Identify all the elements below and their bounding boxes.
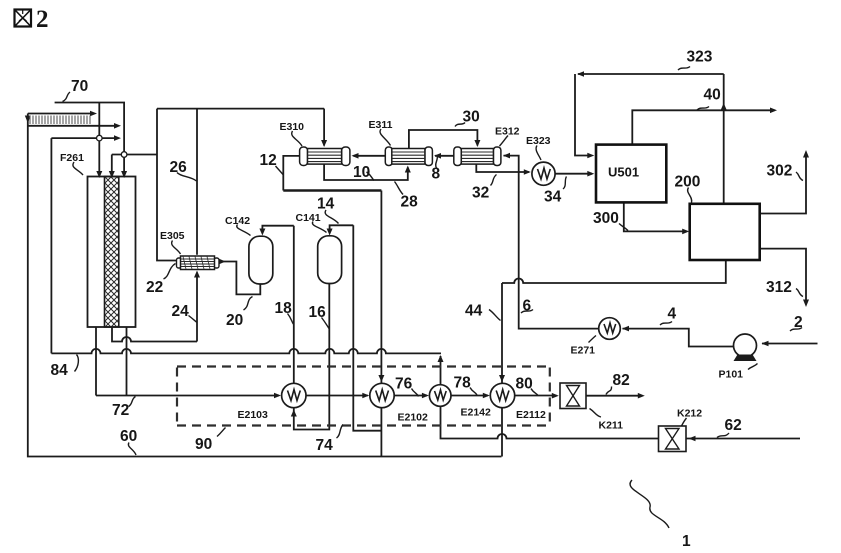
svg-text:E305: E305 [160, 230, 185, 242]
svg-text:302: 302 [767, 163, 793, 180]
svg-text:K212: K212 [677, 408, 702, 420]
svg-text:E2142: E2142 [461, 407, 492, 419]
svg-text:E323: E323 [526, 135, 551, 147]
svg-text:E271: E271 [571, 345, 596, 357]
svg-text:82: 82 [613, 372, 630, 389]
svg-text:22: 22 [146, 279, 163, 296]
svg-text:E311: E311 [369, 119, 393, 131]
svg-text:26: 26 [170, 159, 188, 176]
svg-text:24: 24 [172, 303, 190, 320]
svg-text:1: 1 [682, 533, 691, 550]
svg-text:F261: F261 [60, 152, 84, 164]
svg-text:E2102: E2102 [398, 412, 429, 424]
svg-text:4: 4 [668, 306, 677, 323]
svg-text:16: 16 [309, 304, 327, 321]
svg-text:72: 72 [112, 402, 129, 419]
svg-text:8: 8 [432, 166, 441, 183]
svg-text:74: 74 [316, 437, 334, 454]
svg-text:E2103: E2103 [238, 409, 269, 421]
svg-text:20: 20 [226, 312, 243, 329]
svg-text:28: 28 [401, 194, 419, 211]
svg-text:80: 80 [516, 376, 533, 393]
svg-text:40: 40 [704, 87, 721, 104]
svg-text:34: 34 [544, 189, 562, 206]
svg-text:C141: C141 [296, 212, 321, 224]
svg-text:C142: C142 [225, 215, 250, 227]
svg-text:32: 32 [472, 185, 489, 202]
svg-text:30: 30 [463, 109, 480, 126]
svg-text:78: 78 [454, 375, 472, 392]
svg-text:U501: U501 [608, 165, 639, 180]
svg-text:312: 312 [766, 279, 792, 296]
svg-text:84: 84 [51, 362, 69, 379]
svg-text:14: 14 [317, 196, 335, 213]
svg-text:323: 323 [687, 49, 713, 66]
svg-text:60: 60 [120, 428, 137, 445]
svg-text:90: 90 [195, 436, 212, 453]
svg-text:18: 18 [275, 300, 293, 317]
svg-text:10: 10 [353, 164, 370, 181]
svg-text:62: 62 [725, 417, 742, 434]
svg-text:P101: P101 [719, 369, 744, 381]
svg-text:K211: K211 [599, 420, 624, 432]
svg-text:E310: E310 [280, 121, 305, 133]
svg-text:E2112: E2112 [516, 409, 546, 421]
svg-text:300: 300 [593, 210, 619, 227]
svg-text:200: 200 [675, 174, 701, 191]
svg-text:12: 12 [260, 152, 277, 169]
svg-text:2: 2 [36, 6, 49, 33]
svg-text:70: 70 [71, 78, 88, 95]
svg-text:76: 76 [395, 376, 413, 393]
svg-text:E312: E312 [495, 126, 520, 138]
svg-text:44: 44 [465, 303, 483, 320]
svg-text:2: 2 [794, 314, 803, 331]
svg-text:6: 6 [523, 298, 532, 315]
